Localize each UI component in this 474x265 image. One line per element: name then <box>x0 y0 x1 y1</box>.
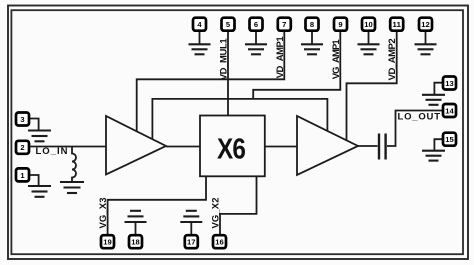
pad 1 <box>16 168 29 181</box>
wire VG bias rail amp1 gate to amp2 gate <box>152 99 327 139</box>
pad 3 <box>16 113 29 126</box>
svg-text:7: 7 <box>282 20 286 29</box>
ground (pad 18) <box>125 211 147 222</box>
wire X6 output to amp2 <box>265 146 297 148</box>
svg-text:12: 12 <box>421 20 430 29</box>
ground (inductor) <box>60 182 84 193</box>
wire VD_AMP1: pad 7 to amp1 top <box>137 31 285 132</box>
svg-text:VG_AMP1: VG_AMP1 <box>331 39 342 80</box>
svg-text:9: 9 <box>338 20 342 29</box>
svg-text:2: 2 <box>20 143 24 152</box>
pad 13 <box>443 77 456 90</box>
pad 15 <box>443 133 456 146</box>
svg-text:8: 8 <box>310 20 314 29</box>
ground (pad 15) <box>434 139 443 150</box>
pad 18 <box>129 235 142 248</box>
amplifier A1 <box>106 116 166 175</box>
ground (pad 13) <box>434 83 443 94</box>
ground (pad 17) <box>180 211 202 222</box>
ground (pad 10) <box>368 31 370 44</box>
pad 4 <box>193 18 206 31</box>
wire VD_AMP2: pad 11 to amp2 top <box>347 31 397 141</box>
svg-text:VD_AMP1: VD_AMP1 <box>275 36 286 79</box>
svg-text:10: 10 <box>364 20 373 29</box>
wire VG_X2: X6 bottom-right to pad 16 <box>220 176 257 235</box>
svg-text:VD_AMP2: VD_AMP2 <box>387 38 398 80</box>
pad 6 <box>250 18 263 31</box>
wire VD_MUL1: pad 5 to X6 top <box>227 31 229 116</box>
ground (pad 3) <box>29 119 39 131</box>
svg-text:13: 13 <box>445 79 454 88</box>
ground (pad 12) <box>425 31 427 44</box>
capacitor C1 (dc block) <box>379 134 386 160</box>
pad 5 <box>222 18 235 31</box>
svg-text:18: 18 <box>131 238 140 247</box>
svg-text:VG_X3: VG_X3 <box>98 198 109 229</box>
amplifier A2 <box>297 116 358 175</box>
svg-text:16: 16 <box>215 238 224 247</box>
wire amp1 output to X6 <box>166 146 200 148</box>
ground (pad 4) <box>199 31 201 44</box>
wire capacitor to pad 14 (LO_OUT) <box>387 111 443 147</box>
svg-text:3: 3 <box>20 115 24 124</box>
wire VG_X3: X6 bottom-left to pad 19 <box>108 176 206 234</box>
inductor L1 shunt on LO_IN <box>72 147 76 182</box>
ground (pad 6) <box>255 31 257 44</box>
svg-text:VG_X2: VG_X2 <box>210 198 221 229</box>
svg-text:X6: X6 <box>217 134 246 166</box>
svg-text:LO_IN: LO_IN <box>36 146 68 157</box>
wire amp2 output to capacitor <box>358 145 378 147</box>
wire LO_IN: pad 2 to amp1 input <box>29 146 106 148</box>
svg-text:VD_MUL1: VD_MUL1 <box>219 38 230 81</box>
svg-text:6: 6 <box>254 20 258 29</box>
svg-text:11: 11 <box>392 20 401 29</box>
pad 11 <box>390 18 403 31</box>
ground (pad 1) <box>29 175 39 186</box>
multiplier block X6 <box>200 116 265 177</box>
pad 2 <box>16 141 29 154</box>
pad 14 <box>443 104 456 117</box>
pad 12 <box>419 18 432 31</box>
pad 7 <box>278 18 291 31</box>
pad 8 <box>306 18 319 31</box>
svg-text:LO_OUT: LO_OUT <box>398 112 441 123</box>
svg-text:14: 14 <box>445 106 454 115</box>
pad 16 <box>213 235 226 248</box>
pad 9 <box>334 18 347 31</box>
pad 19 <box>101 235 114 248</box>
pad 17 <box>185 235 198 248</box>
svg-text:15: 15 <box>445 135 454 144</box>
wire VG_AMP1: pad 9 down and left <box>253 31 340 99</box>
ground (pad 8) <box>311 31 313 44</box>
svg-text:19: 19 <box>103 238 112 247</box>
svg-text:17: 17 <box>187 238 196 247</box>
pad 10 <box>362 18 375 31</box>
